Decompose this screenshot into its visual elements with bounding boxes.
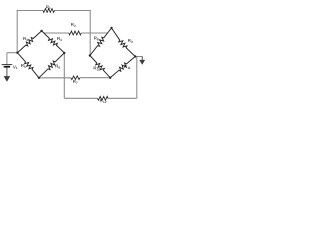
resistor R2 on middle wire joining the two bridges tops [44,32,69,34]
resistor R8 right bridge top-left edge [90,28,112,56]
battery V1 [6,53,8,65]
ground (arrow) at right bridge output [141,57,143,61]
wire: vertical x=90 from top wire down to right bridge left node [89,10,91,56]
wire: stub from battery column to left bridge left node [7,52,18,54]
node: left bridge right vertex [63,52,65,54]
resistor R9 right bridge top-right edge [112,28,136,57]
svg-text:R1: R1 [46,4,51,10]
svg-text:R2: R2 [71,22,76,28]
svg-text:R7: R7 [73,79,78,85]
node: left bridge top vertex [40,30,42,32]
svg-text:R9: R9 [128,38,133,44]
circuit schematic: two resistor bridge networks with battery source [0,0,149,105]
resistor R7 on wire between bridge bottom nodes [39,77,71,79]
node: left bridge bottom vertex [38,77,40,79]
resistor R11 right bridge bottom-right edge [110,57,135,78]
node: right bridge bottom vertex [109,77,111,79]
svg-text:R6: R6 [55,64,60,70]
resistor R10 right bridge bottom-left edge [90,56,110,78]
svg-text:R3: R3 [23,36,28,42]
svg-text:R4: R4 [57,36,62,42]
svg-text:V1: V1 [13,64,18,70]
resistor R3 left bridge top-left edge [17,31,41,53]
resistor R6 left bridge bottom-right edge [39,53,64,78]
wire: vertical from left bridge right node down to bottom wire [63,53,65,98]
svg-text:R11: R11 [124,64,131,70]
node: right bridge right vertex [134,55,136,57]
svg-text:R8: R8 [94,36,99,42]
wire: right vertical from right bridge right node down to bottom wire [136,57,138,99]
ground (arrow) below battery [4,76,11,82]
wire: right bridge right node to ground arrow [135,56,142,58]
resistor R5 left bridge bottom-left edge [17,53,39,78]
resistor R12 on bottom wire [64,97,97,99]
node: right bridge top vertex [110,27,112,29]
node: left bridge left vertex [16,52,18,54]
wire: left vertical from top-left corner down to left bridge left node [16,10,18,53]
resistor R4 left bridge top-right edge [42,31,65,53]
resistor R1 on top wire [17,10,43,12]
node: right bridge left vertex [89,54,91,56]
